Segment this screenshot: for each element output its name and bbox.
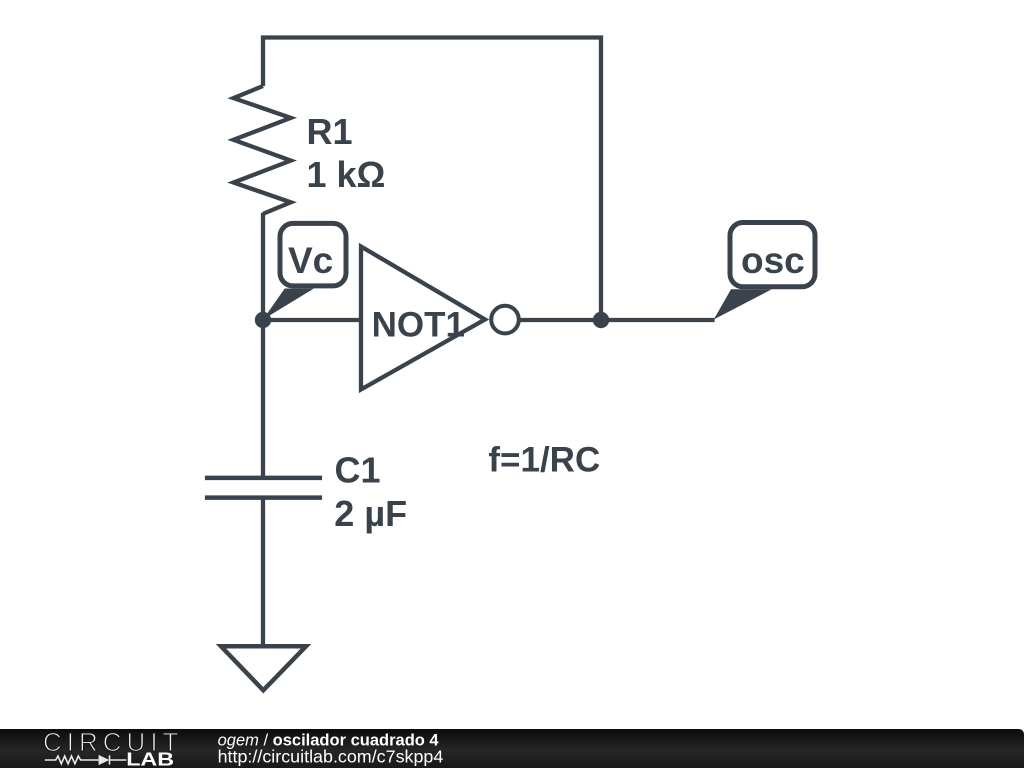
svg-text:osc: osc (741, 240, 805, 281)
svg-text:f=1/RC: f=1/RC (488, 441, 600, 480)
ground (221, 646, 306, 690)
node Vc junction dot (255, 312, 271, 328)
svg-text:2 µF: 2 µF (334, 493, 407, 534)
svg-text:NOT1: NOT1 (372, 305, 465, 344)
resistor R1 (234, 86, 386, 214)
junction dot output node (593, 312, 609, 328)
CircuitLab logo resistor-diode line (45, 755, 127, 764)
svg-text:R1: R1 (307, 111, 353, 152)
wire NOT1 output to osc (518, 318, 715, 322)
svg-text:LAB: LAB (126, 750, 174, 768)
capacitor C1 (205, 450, 407, 535)
flag Vc (263, 223, 346, 319)
wire resistor to node Vc (261, 213, 265, 320)
wire node Vc to NOT1 input (263, 318, 361, 322)
wire node Vc down to capacitor C1 (261, 320, 265, 476)
svg-text:C1: C1 (335, 450, 381, 491)
wire feedback loop top and right (263, 38, 601, 321)
CircuitLab logo diode triangle (99, 755, 110, 765)
NOT1 inverting bubble (491, 306, 519, 334)
svg-text:http://circuitlab.com/c7skpp4: http://circuitlab.com/c7skpp4 (218, 747, 444, 767)
wire capacitor to ground (261, 498, 265, 646)
flag osc (714, 223, 815, 320)
svg-text:Vc: Vc (288, 240, 333, 281)
svg-text:1 kΩ: 1 kΩ (307, 154, 386, 195)
op-amp U1 / NOT gate NOT1 triangle (361, 247, 485, 390)
